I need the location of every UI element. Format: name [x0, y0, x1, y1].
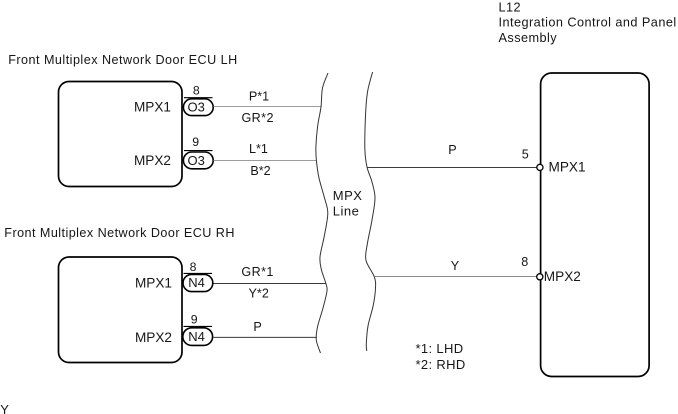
pin 8 (ECU LH MPX1) [184, 84, 213, 98]
svg-text:MPX1: MPX1 [135, 275, 172, 290]
svg-text:*2: RHD: *2: RHD [416, 357, 466, 372]
svg-text:Line: Line [333, 204, 360, 219]
svg-text:MPX2: MPX2 [544, 269, 581, 284]
svg-text:N4: N4 [188, 275, 205, 290]
wire MPX1 LH [214, 106, 322, 108]
svg-text:8: 8 [521, 255, 528, 269]
svg-text:L12: L12 [499, 0, 522, 14]
ECU LH box [59, 82, 183, 187]
ECU RH box [59, 257, 183, 363]
svg-text:Front Multiplex Network Door E: Front Multiplex Network Door ECU LH [8, 53, 238, 67]
svg-text:O3: O3 [188, 100, 205, 115]
svg-text:MPX2: MPX2 [135, 330, 172, 345]
svg-text:8: 8 [193, 84, 200, 98]
wire P to integration panel [367, 167, 537, 169]
svg-text:Integration Control and Panel: Integration Control and Panel [499, 16, 677, 30]
pin 9 (ECU LH MPX2) [184, 135, 213, 151]
wire MPX1 RH [214, 283, 326, 285]
svg-text:8: 8 [190, 260, 197, 274]
svg-text:GR*1: GR*1 [241, 265, 273, 279]
pin 8 (ECU RH MPX1) [184, 260, 213, 274]
svg-text:*1: LHD: *1: LHD [416, 341, 464, 356]
svg-text:MPX: MPX [333, 188, 363, 203]
wire MPX2 LH [214, 160, 317, 162]
svg-text:Front Multiplex Network Door E: Front Multiplex Network Door ECU RH [4, 226, 235, 240]
svg-text:N4: N4 [188, 329, 205, 344]
connector N4 (pin 8) [183, 274, 213, 291]
svg-text:Y: Y [451, 259, 460, 273]
svg-text:P*1: P*1 [249, 89, 269, 103]
title L12 Integration Control and Panel Assembly [499, 0, 677, 45]
svg-text:9: 9 [191, 313, 198, 327]
svg-text:P: P [448, 143, 456, 157]
svg-text:L*1: L*1 [249, 142, 268, 156]
svg-text:GR*2: GR*2 [241, 111, 273, 125]
svg-text:9: 9 [192, 135, 199, 149]
svg-text:O3: O3 [188, 153, 205, 168]
pin circle MPX1 (panel) [537, 164, 543, 170]
connector N4 (pin 9) [183, 328, 213, 346]
pin 9 (ECU RH MPX2) [184, 313, 213, 327]
integration panel box [541, 73, 650, 377]
MPX bus wavy line right [365, 72, 376, 351]
svg-text:MPX1: MPX1 [134, 99, 171, 114]
svg-text:Y*2: Y*2 [249, 287, 269, 301]
svg-text:MPX2: MPX2 [134, 153, 171, 168]
svg-text:Y: Y [0, 402, 9, 414]
label MPX Line [333, 188, 363, 219]
svg-text:MPX1: MPX1 [549, 159, 586, 174]
connector O3 (pin 8) [183, 99, 213, 116]
svg-text:B*2: B*2 [250, 164, 270, 178]
wire MPX2 RH [214, 336, 317, 338]
svg-text:5: 5 [522, 147, 529, 161]
svg-text:P: P [253, 320, 261, 334]
wire Y to integration panel [374, 276, 537, 278]
pin circle MPX2 (panel) [537, 274, 543, 280]
MPX bus wavy line left [316, 73, 328, 353]
svg-text:Assembly: Assembly [499, 31, 558, 45]
connector O3 (pin 9) [183, 152, 213, 169]
